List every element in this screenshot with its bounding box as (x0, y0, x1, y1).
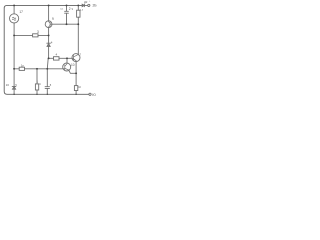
svg-text:5: 5 (15, 83, 17, 87)
svg-text:17: 17 (19, 10, 23, 14)
source V1 (10, 14, 19, 23)
transistor T1 (45, 21, 52, 28)
wire T3 collector up to base line (66, 58, 68, 63)
terminal top right (88, 4, 90, 6)
svg-text:9: 9 (52, 17, 54, 21)
svg-text:4: 4 (56, 52, 58, 56)
svg-text:9: 9 (72, 8, 74, 11)
svg-text:2: 2 (69, 7, 71, 11)
transistor T3 (63, 63, 71, 71)
svg-text:Ю: Ю (92, 93, 96, 97)
diode D1 (82, 4, 85, 7)
capacitor C3 (bottom middle) (45, 87, 49, 89)
resistor R1 (top right, vertical) (77, 5, 79, 24)
source squiggle (12, 17, 15, 18)
wire diode to terminal (85, 4, 88, 6)
wire outer loop: top rail, left border, bottom rail (4, 5, 89, 94)
junction dots (13, 4, 79, 95)
wire base line A (14, 34, 49, 36)
wire R7 to bottom rail (75, 91, 77, 95)
wire branch down to R6 (36, 69, 38, 95)
wire left vertical below mid junction (13, 69, 15, 95)
svg-text:+: + (89, 1, 91, 3)
labels (6, 0, 98, 97)
capacitor C2 (65, 5, 69, 24)
wire T1 collector stem (48, 5, 50, 20)
svg-text:2Б: 2Б (93, 4, 98, 8)
svg-text:16: 16 (6, 83, 10, 87)
svg-text:3: 3 (37, 30, 39, 34)
resistor R6 (vertical) (35, 84, 38, 90)
wire T3 emitter to junction (69, 70, 76, 73)
transistor T2 (72, 54, 80, 62)
svg-text:С: С (39, 82, 41, 86)
zener Z2 (bottom left) (12, 85, 16, 87)
wire V1 top stem (13, 5, 15, 13)
zener Z1 (47, 42, 51, 44)
wire vertical to lower cross (46, 58, 49, 94)
svg-text:7: 7 (80, 53, 82, 57)
wire resistor chain down to T2 (77, 24, 79, 55)
svg-text:1,5: 1,5 (80, 9, 84, 11)
resistor R7 (vertical bottom right) (74, 86, 77, 91)
svg-text:0,1: 0,1 (60, 8, 64, 10)
resistor R3 (54, 57, 60, 60)
resistor R5 (horizontal mid-left) (19, 67, 24, 70)
wire T2 emitter down (75, 61, 77, 86)
svg-text:10: 10 (71, 63, 75, 67)
resistor R2 (horizontal) (33, 34, 38, 37)
wire mid line D (14, 68, 65, 70)
wire base line C with resistor R3 (49, 57, 74, 59)
svg-text:4: 4 (51, 40, 53, 44)
svg-text:Д2: Д2 (84, 0, 88, 4)
terminal bottom right (89, 93, 91, 95)
svg-text:5: 5 (50, 83, 52, 87)
wire T1 emitter stem down (48, 28, 50, 43)
wire T1 right lead to resistor chain (50, 23, 78, 25)
svg-text:10: 10 (78, 86, 81, 89)
wire V1 bottom stem down to mid bus (13, 23, 15, 69)
wire zener to junction (48, 47, 50, 59)
